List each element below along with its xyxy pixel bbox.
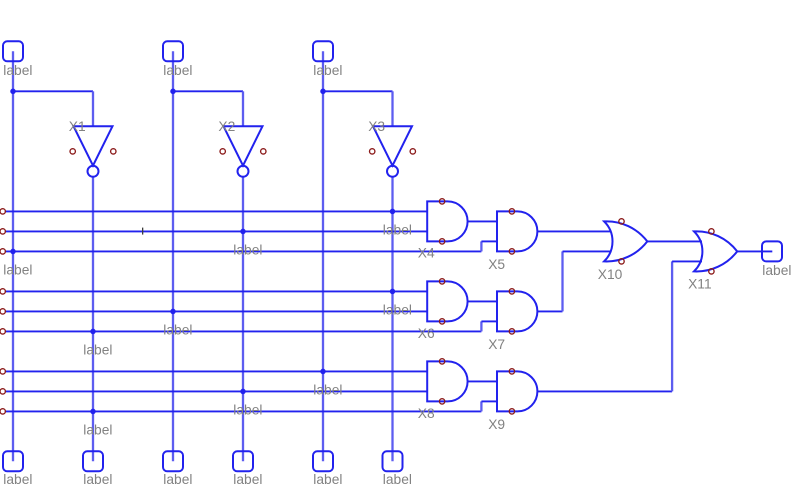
svg-text:label: label bbox=[163, 472, 192, 487]
svg-text:label: label bbox=[163, 323, 192, 338]
svg-text:label: label bbox=[383, 303, 412, 318]
svg-text:X6: X6 bbox=[418, 326, 435, 341]
svg-text:label: label bbox=[3, 263, 32, 278]
svg-text:label: label bbox=[83, 472, 112, 487]
svg-text:label: label bbox=[83, 343, 112, 358]
svg-text:label: label bbox=[3, 63, 32, 78]
svg-text:label: label bbox=[83, 423, 112, 438]
svg-text:label: label bbox=[233, 403, 262, 418]
svg-text:X3: X3 bbox=[368, 119, 385, 134]
svg-text:label: label bbox=[313, 63, 342, 78]
svg-text:X10: X10 bbox=[598, 267, 623, 282]
svg-text:X2: X2 bbox=[218, 119, 235, 134]
svg-text:X4: X4 bbox=[418, 246, 435, 261]
svg-text:X11: X11 bbox=[688, 276, 712, 291]
svg-text:label: label bbox=[233, 472, 262, 487]
svg-text:label: label bbox=[163, 63, 192, 78]
svg-text:X7: X7 bbox=[488, 337, 505, 352]
svg-text:X1: X1 bbox=[69, 119, 86, 134]
svg-text:label: label bbox=[313, 383, 342, 398]
svg-text:X5: X5 bbox=[488, 257, 505, 272]
svg-text:X9: X9 bbox=[488, 417, 505, 432]
svg-text:label: label bbox=[233, 243, 262, 258]
svg-text:label: label bbox=[383, 472, 412, 487]
svg-text:label: label bbox=[3, 472, 32, 487]
svg-text:label: label bbox=[762, 263, 791, 278]
svg-text:label: label bbox=[313, 472, 342, 487]
svg-text:X8: X8 bbox=[418, 406, 435, 421]
svg-text:label: label bbox=[383, 223, 412, 238]
